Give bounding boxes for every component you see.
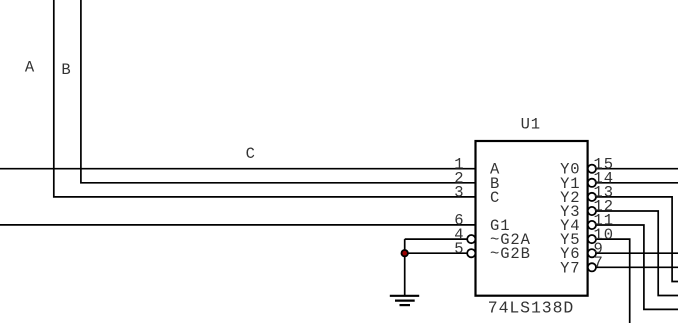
- svg-text:C: C: [490, 189, 500, 207]
- svg-text:U1: U1: [521, 115, 541, 133]
- svg-text:B: B: [61, 61, 71, 79]
- svg-text:A: A: [25, 58, 35, 76]
- svg-text:~G2B: ~G2B: [490, 245, 531, 263]
- svg-text:5: 5: [454, 240, 464, 258]
- svg-text:C: C: [246, 145, 256, 163]
- svg-text:3: 3: [454, 184, 464, 202]
- svg-text:7: 7: [594, 254, 604, 272]
- svg-text:Y7: Y7: [560, 259, 580, 277]
- svg-text:74LS138D: 74LS138D: [488, 298, 574, 317]
